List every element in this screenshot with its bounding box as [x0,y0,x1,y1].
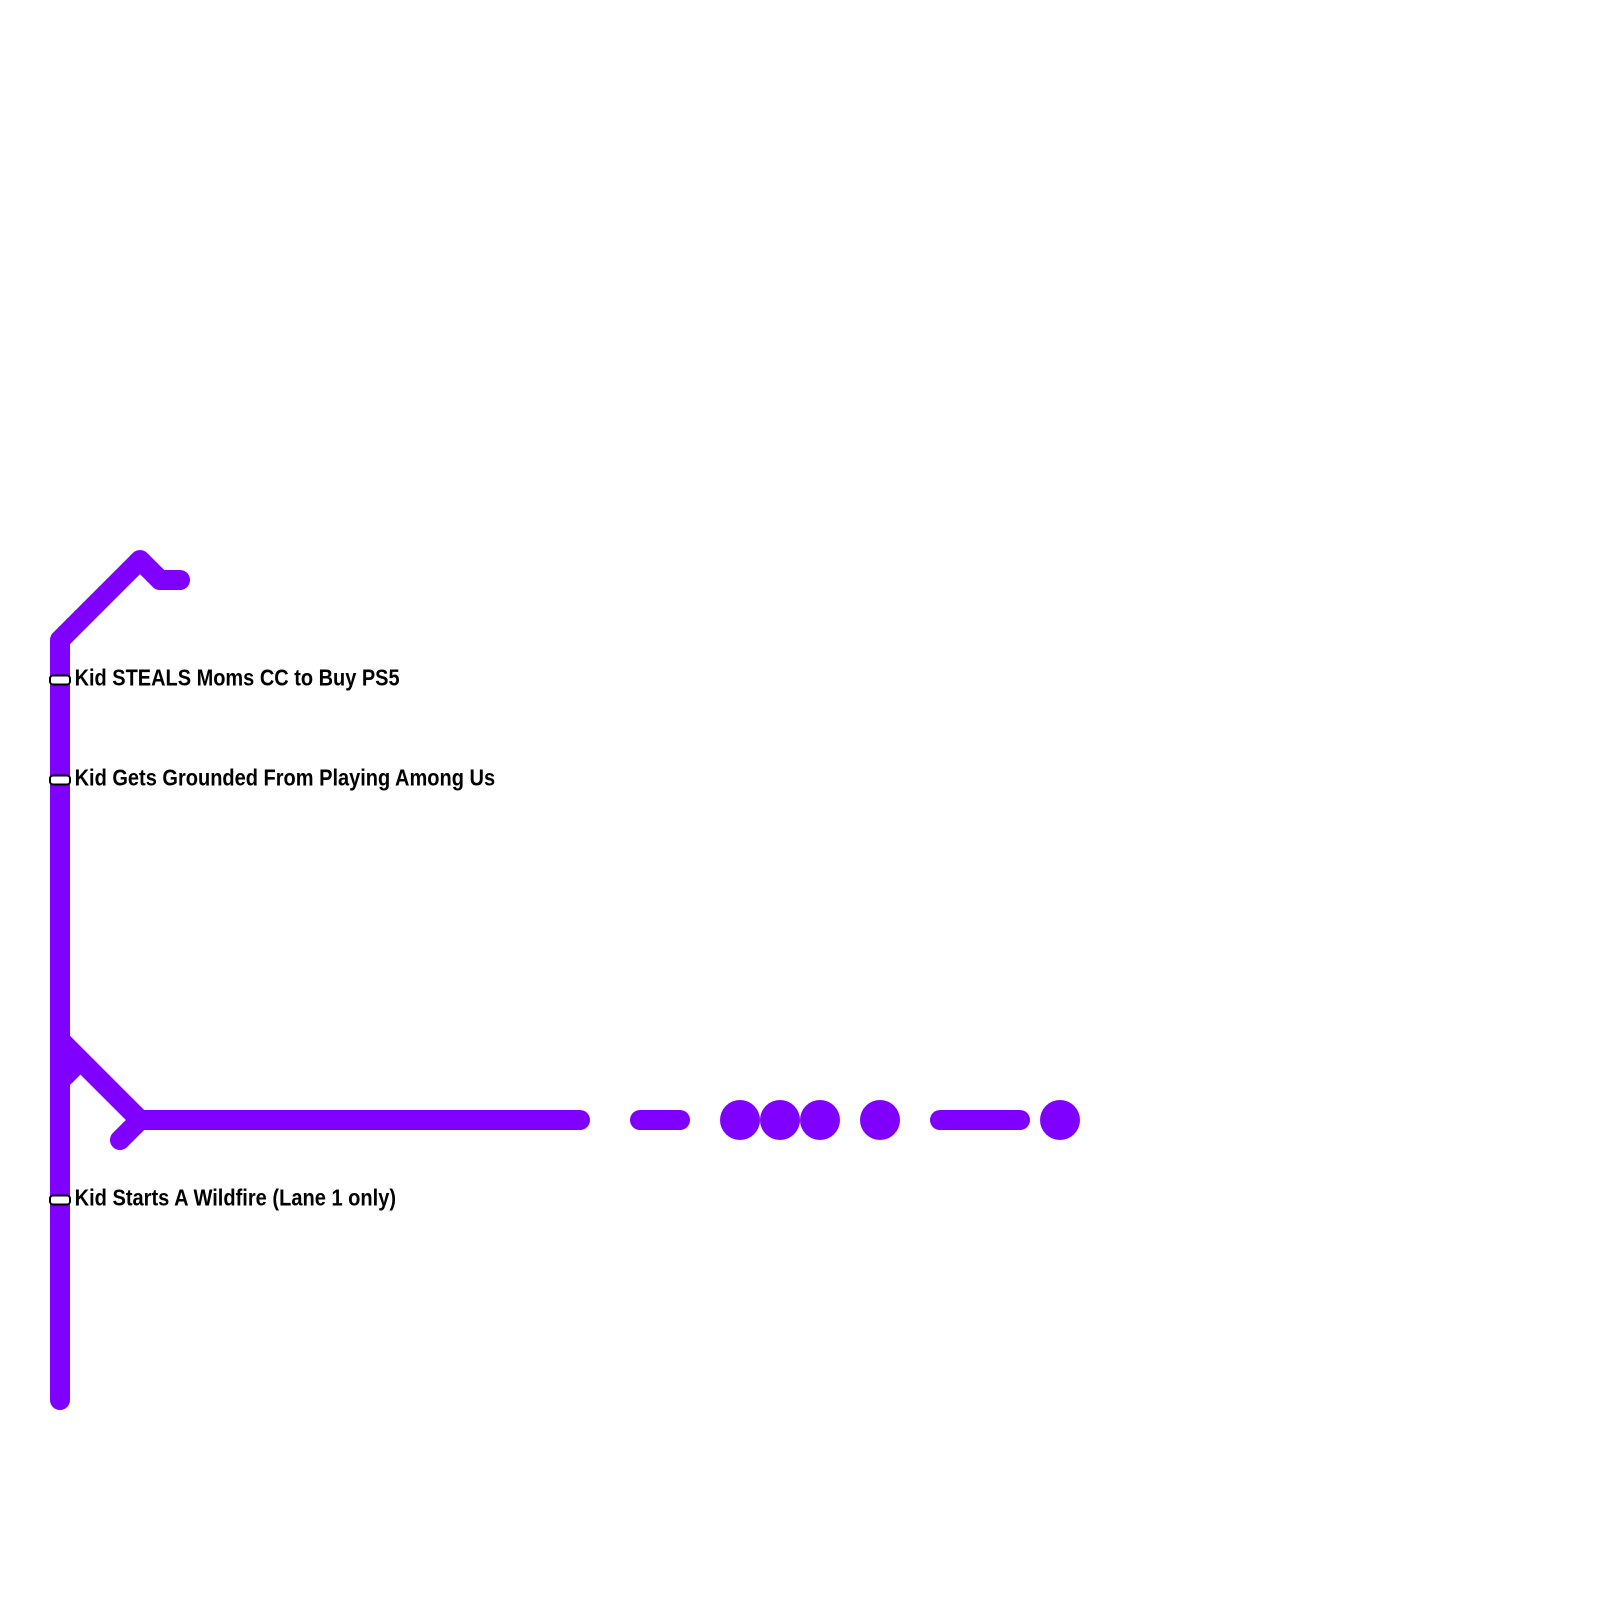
wire: diagonal branch A from vertical to horizontal route [60,1040,580,1120]
station marker: Kid Gets Grounded From Playing Among Us [50,776,70,785]
node: dot 5 [1040,1100,1080,1140]
station marker: Kid Starts A Wildfire (Lane 1 only) [50,1196,70,1205]
node: dot 3 [800,1100,840,1140]
wire: merge stub C with rounded cap below junction [120,1120,140,1140]
station marker: Kid STEALS Moms CC to Buy PS5 [50,676,70,685]
node: dot 1 [720,1100,760,1140]
node: dot 2 [760,1100,800,1140]
wire: short merge stub B on vertical line [60,1060,78,1078]
wire: dash segment 2 of horizontal route [940,1110,1020,1130]
line: Lane 1 main vertical with top branch to rounded end [60,560,180,1400]
svg-text:Kid Starts A Wildfire (Lane 1: Kid Starts A Wildfire (Lane 1 only) [75,1185,397,1211]
svg-text:Kid STEALS Moms CC to Buy PS5: Kid STEALS Moms CC to Buy PS5 [75,665,400,691]
node: dot 4 [860,1100,900,1140]
wire: dash segment 1 of horizontal route [640,1110,680,1130]
svg-text:Kid Gets Grounded From Playing: Kid Gets Grounded From Playing Among Us [75,765,496,791]
